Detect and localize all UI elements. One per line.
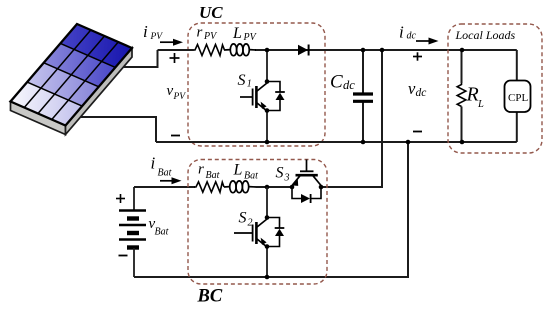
label i_Bat xyxy=(151,154,172,179)
svg-text:dc: dc xyxy=(416,87,427,99)
svg-text:UC: UC xyxy=(199,3,223,22)
converter box UC xyxy=(188,23,325,146)
svg-text:r: r xyxy=(197,25,203,41)
wire S3 output to top rail xyxy=(321,50,382,187)
svg-text:3: 3 xyxy=(284,173,290,184)
junction C_dc bottom xyxy=(361,140,366,145)
svg-text:PV: PV xyxy=(150,32,164,42)
svg-text:L: L xyxy=(477,99,484,110)
label r_PV xyxy=(197,25,219,43)
capacitor C_dc xyxy=(353,50,373,142)
resistor r_Bat xyxy=(194,182,224,192)
svg-text:2: 2 xyxy=(248,218,253,229)
wire bottom rail xyxy=(156,141,517,143)
junction S2 / BC bottom xyxy=(265,275,270,280)
inductor L_Bat xyxy=(224,181,256,193)
junction BC bottom / bottom rail xyxy=(406,140,411,145)
label v_Bat xyxy=(149,216,169,238)
svg-text:dc: dc xyxy=(343,78,355,92)
label i_dc xyxy=(399,23,417,42)
label v_dc xyxy=(408,79,426,99)
svg-text:PV: PV xyxy=(173,92,187,102)
svg-text:Bat: Bat xyxy=(158,168,172,179)
label + (dc bus) xyxy=(413,52,422,60)
label S1 xyxy=(238,72,252,90)
label + (PV) xyxy=(170,53,180,63)
load box Local Loads xyxy=(448,24,542,153)
transistor S2 (IGBT with antiparallel diode) xyxy=(234,187,284,277)
svg-text:S: S xyxy=(239,210,247,227)
svg-text:Bat: Bat xyxy=(206,170,220,181)
svg-text:i: i xyxy=(399,23,404,42)
label R_L xyxy=(466,84,485,111)
svg-text:L: L xyxy=(232,25,242,42)
junction C_dc top xyxy=(361,48,366,53)
converter box BC xyxy=(188,160,327,285)
wire PV- (panel to bottom rail step) xyxy=(72,117,156,142)
label i_PV xyxy=(143,22,163,42)
svg-text:1: 1 xyxy=(247,79,252,90)
svg-text:v: v xyxy=(167,83,174,99)
svg-text:CPL: CPL xyxy=(508,92,528,104)
arrow i_Bat xyxy=(160,177,182,184)
label − (battery) xyxy=(119,255,128,257)
transistor S1 (IGBT with antiparallel diode) xyxy=(240,50,285,142)
transistor S3 (IGBT rotated, with antiparallel diode) xyxy=(290,160,324,204)
label − (PV) xyxy=(171,135,180,137)
wire battery top to BC xyxy=(134,186,195,188)
resistor r_PV xyxy=(193,45,225,56)
junction R_L bottom xyxy=(460,140,465,145)
label + (battery) xyxy=(116,194,125,203)
battery v_Bat xyxy=(119,187,146,277)
svg-text:Bat: Bat xyxy=(155,227,169,238)
svg-text:S: S xyxy=(238,72,246,89)
label S3 xyxy=(276,165,290,184)
junction node top rail / S1 xyxy=(265,48,270,53)
label − (dc bus) xyxy=(413,131,422,133)
label r_Bat xyxy=(198,162,220,182)
label v_PV xyxy=(167,83,187,102)
inductor L_PV xyxy=(224,44,256,56)
wire BC bottom return xyxy=(134,142,408,277)
PV panel xyxy=(11,24,133,135)
arrow i_dc xyxy=(416,38,439,45)
svg-text:C: C xyxy=(330,72,343,93)
arrow i_PV xyxy=(160,39,183,46)
diode D1 (top rail) xyxy=(298,45,309,56)
svg-text:r: r xyxy=(198,162,204,178)
svg-text:Local Loads: Local Loads xyxy=(455,28,516,42)
svg-text:Bat: Bat xyxy=(244,170,258,181)
wire top rail xyxy=(158,49,194,51)
label S2 xyxy=(239,210,253,229)
svg-text:PV: PV xyxy=(203,31,218,42)
svg-text:dc: dc xyxy=(407,31,417,42)
svg-text:i: i xyxy=(143,22,148,41)
svg-text:L: L xyxy=(233,161,243,178)
svg-text:i: i xyxy=(151,154,156,173)
resistor R_L xyxy=(457,50,466,142)
svg-text:S: S xyxy=(276,165,284,182)
label L_Bat xyxy=(233,161,259,181)
CPL block xyxy=(505,50,531,142)
junction midpoint node xyxy=(265,185,270,190)
label L_PV xyxy=(232,25,258,43)
label C_dc xyxy=(330,72,355,93)
svg-text:PV: PV xyxy=(243,32,258,43)
wire L_Bat to S3 xyxy=(256,186,292,188)
junction node bottom rail / S1 xyxy=(265,140,270,145)
wire PV+ (panel to top rail step) xyxy=(108,50,158,67)
svg-text:BC: BC xyxy=(197,287,223,307)
junction S3-line / top rail xyxy=(380,48,385,53)
junction R_L top xyxy=(460,48,465,53)
svg-text:R: R xyxy=(466,84,479,106)
